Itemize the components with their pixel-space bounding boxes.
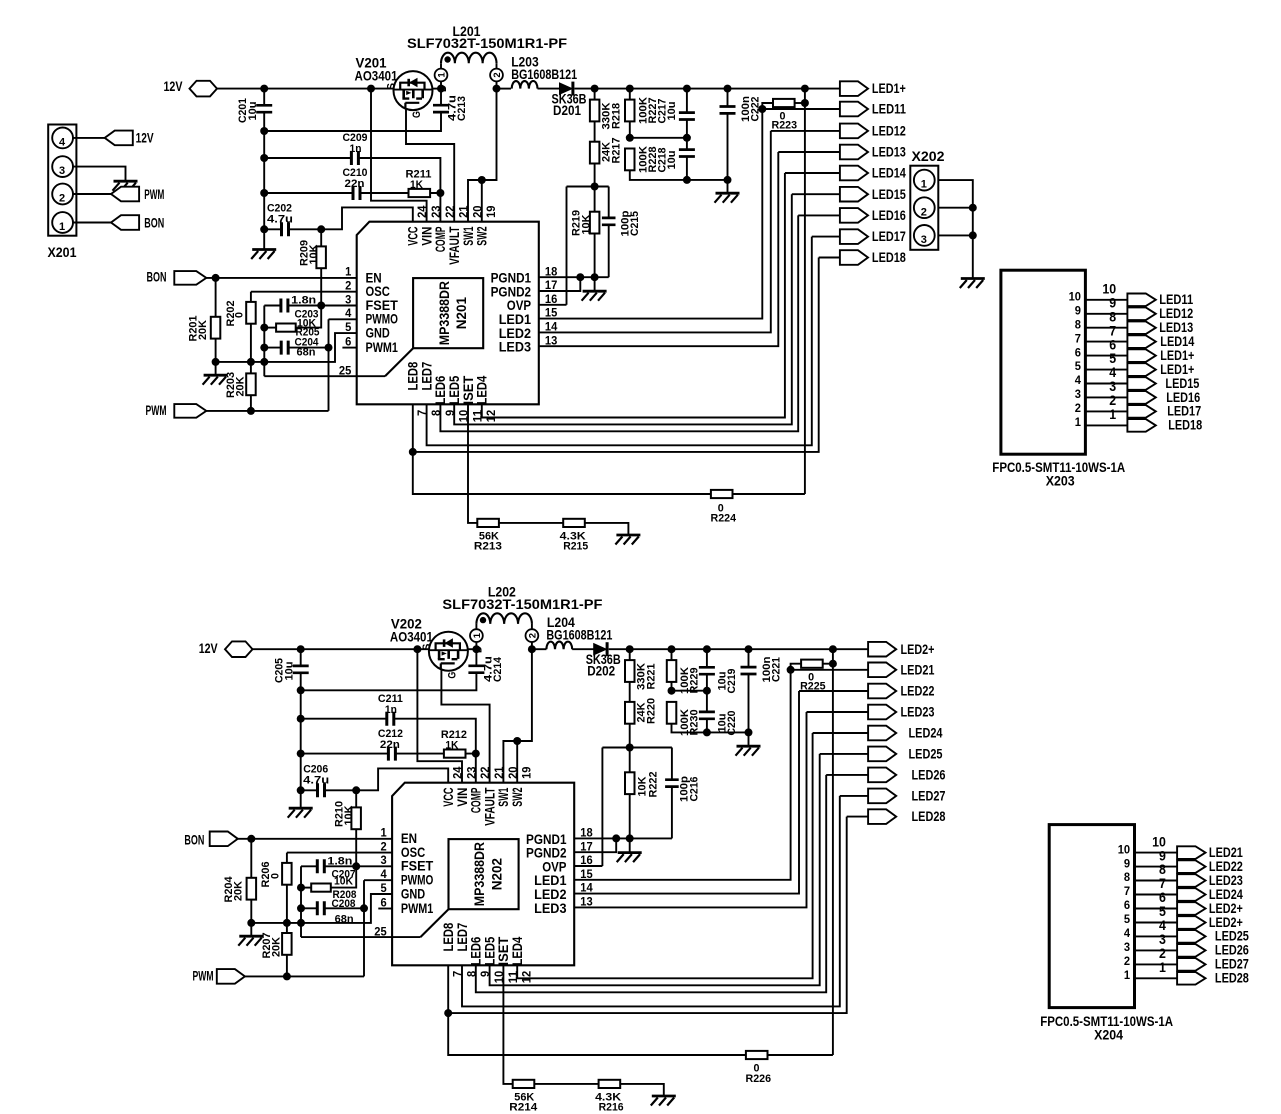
junction R225 LED21	[787, 666, 795, 674]
capacitor C211 1n	[387, 712, 394, 726]
svg-text:LED27: LED27	[1215, 957, 1249, 972]
wire pin25 inside diagonal N202	[420, 909, 448, 937]
flag LED2+	[868, 642, 896, 657]
svg-text:C216: C216	[688, 777, 700, 802]
junction node R208	[297, 884, 305, 892]
svg-text:LED11: LED11	[872, 102, 906, 117]
svg-text:3: 3	[381, 853, 387, 867]
svg-text:2: 2	[1124, 954, 1130, 968]
wire gnd stem R204	[250, 923, 252, 936]
wire pin25 row N202	[301, 936, 420, 938]
wire ISET bottom	[503, 965, 512, 1084]
capacitor C221 100n	[741, 667, 757, 674]
wire C220 bottom lead	[706, 719, 708, 733]
junction rail C209 branch	[260, 154, 268, 162]
wire R216 to gnd	[620, 1084, 664, 1095]
svg-text:1: 1	[1109, 407, 1116, 422]
svg-text:EN: EN	[401, 831, 417, 846]
svg-text:22n: 22n	[345, 178, 365, 190]
resistor R222 10K	[625, 772, 635, 794]
svg-text:10: 10	[1118, 842, 1131, 856]
svg-text:16: 16	[545, 292, 558, 306]
wire V201 gate to VFAULT	[406, 108, 454, 222]
junction VOUT C217	[683, 85, 691, 93]
inductor L201	[441, 53, 497, 64]
wire LED23 riser pin13	[574, 712, 806, 907]
junction V202 drain L202	[472, 645, 480, 653]
svg-text:R221: R221	[646, 664, 658, 690]
junction BON R204	[247, 835, 255, 843]
svg-text:13: 13	[545, 333, 558, 347]
chip N202 inner label box	[449, 839, 519, 909]
wire VOUT rail	[575, 88, 840, 90]
svg-text:LED2: LED2	[534, 887, 566, 902]
flag PWM input	[174, 404, 206, 418]
svg-text:LED1: LED1	[534, 873, 567, 888]
ground rail bottom half	[289, 807, 313, 810]
junction SW1 SW2	[478, 176, 486, 184]
flag LED2+ at X204	[1177, 916, 1205, 929]
svg-text:2: 2	[1109, 393, 1116, 408]
svg-text:LED25: LED25	[1215, 929, 1249, 944]
svg-text:PGND1: PGND1	[526, 832, 567, 847]
wire X204 pin 4	[1135, 935, 1178, 937]
svg-text:SW1: SW1	[496, 787, 511, 807]
wire LED28 riser pin7	[448, 817, 847, 1014]
svg-text:2: 2	[1159, 946, 1166, 961]
svg-text:5: 5	[381, 881, 387, 895]
flag BON at X201	[111, 215, 139, 230]
wire LED23 row	[807, 711, 869, 713]
resistor R228 100K	[625, 149, 635, 171]
wire C204 right lead	[288, 347, 328, 349]
junction rail C202 branch	[260, 225, 268, 233]
svg-text:BON: BON	[184, 832, 204, 847]
flag LED26	[868, 768, 896, 783]
svg-text:LED27: LED27	[912, 789, 946, 804]
junction VIN riser bottom	[413, 645, 421, 653]
wire X204 pin 10	[1135, 852, 1178, 854]
wire X201 pin3 to gnd	[73, 167, 126, 181]
resistor R223 0ohm	[773, 99, 795, 107]
flag LED23	[868, 705, 896, 720]
svg-text:GND: GND	[366, 326, 391, 341]
flag LED25	[868, 747, 896, 762]
wire PGND1 row N202	[574, 837, 672, 839]
wire C210 row	[264, 192, 353, 194]
svg-text:R224: R224	[711, 513, 737, 525]
junction SW1 SW2 bottom	[513, 737, 521, 745]
svg-text:20K: 20K	[197, 320, 209, 340]
svg-text:D202: D202	[587, 664, 615, 679]
svg-text:15: 15	[580, 867, 593, 881]
wire 12V rail to MOSFET	[217, 88, 394, 90]
junction R223 rail	[801, 99, 809, 107]
svg-text:2: 2	[345, 279, 351, 293]
svg-text:1.8n: 1.8n	[291, 294, 316, 306]
wire LED22 row	[799, 690, 868, 692]
junction VOUT LED2+ rail	[829, 645, 837, 653]
svg-text:OSC: OSC	[366, 284, 390, 299]
junction rail filter node	[260, 358, 268, 366]
capacitor C209 1n	[351, 151, 358, 165]
wire R205 left lead	[264, 327, 276, 329]
junction X202 pin3	[969, 231, 977, 239]
wire R203 bottom lead	[250, 395, 252, 411]
resistor R225 0ohm	[801, 660, 823, 668]
svg-text:1: 1	[472, 632, 483, 638]
wire OVP left branch bottom	[601, 748, 603, 867]
flag BON input bottom	[210, 832, 238, 847]
wire R201 bottom lead	[215, 339, 217, 362]
wire pin25 inside diagonal	[385, 348, 413, 376]
wire LED14 row	[785, 172, 840, 174]
capacitor C217 10u	[679, 113, 695, 120]
resistor R202 0ohm	[246, 302, 256, 324]
svg-text:1: 1	[381, 826, 387, 840]
svg-text:19: 19	[520, 766, 534, 779]
resistor R221 330K	[625, 660, 635, 682]
wire 12V to VIN pin23	[371, 89, 427, 222]
wire R202 bottom lead	[250, 324, 252, 362]
wire LED17 riser pin8	[427, 237, 812, 446]
flag BON input	[174, 271, 206, 285]
svg-text:G: G	[411, 111, 423, 118]
svg-text:6: 6	[1075, 345, 1081, 359]
svg-text:10u: 10u	[284, 662, 296, 681]
wire R227 top lead	[629, 89, 631, 100]
flag LED17	[840, 229, 868, 244]
flag LED16	[840, 208, 868, 223]
svg-text:LED7: LED7	[455, 923, 470, 952]
wire SW to L203	[497, 88, 512, 90]
resistor R217 24K	[590, 142, 600, 164]
inductor L202	[476, 613, 532, 624]
capacitor C219 10u	[699, 667, 715, 674]
svg-text:4: 4	[381, 867, 387, 881]
wire C220 top lead	[706, 691, 708, 712]
svg-text:R220: R220	[646, 698, 658, 724]
wire C222 bottom lead	[727, 114, 729, 193]
wire PWMO row N202	[364, 879, 392, 881]
svg-text:PWMO: PWMO	[401, 873, 433, 888]
wire PGND2 row N202	[574, 838, 616, 852]
svg-text:PWM: PWM	[144, 187, 164, 202]
pin circle 2 of X202	[914, 197, 935, 218]
svg-text:AO3401: AO3401	[355, 69, 398, 84]
junction FSET node	[317, 302, 325, 310]
svg-text:1: 1	[345, 265, 351, 279]
svg-text:LED3: LED3	[499, 340, 532, 355]
resistor R229 100K	[667, 660, 677, 682]
svg-text:21: 21	[457, 205, 471, 218]
wire R226 right	[768, 1054, 833, 1056]
wire C215 top lead	[608, 187, 610, 218]
junction C221 bottom	[745, 728, 753, 736]
wire R218 top lead	[594, 89, 596, 100]
wire left gnd rail N202	[251, 894, 392, 923]
wire LED14 riser pin12	[482, 173, 785, 418]
wire filter node vertical N202	[300, 866, 302, 937]
transistor V202 AO3401 PMOS	[429, 632, 468, 671]
junction COMP node	[436, 189, 444, 197]
power flag 12V bottom	[225, 641, 253, 657]
flag LED27 at X204	[1177, 958, 1205, 971]
svg-text:1: 1	[921, 179, 927, 191]
junction rail C214 branch	[297, 686, 305, 694]
svg-text:21: 21	[492, 766, 506, 779]
svg-text:14: 14	[545, 320, 558, 334]
svg-text:1: 1	[1075, 415, 1081, 429]
wire PWMO row	[329, 318, 357, 320]
wire X204 pin 6	[1135, 908, 1178, 910]
flag LED15	[840, 187, 868, 202]
svg-text:8: 8	[1075, 317, 1081, 331]
resistor R227 100K	[625, 100, 635, 122]
wire R204 top lead	[250, 839, 252, 878]
wire C210 to R211	[360, 192, 409, 194]
junction rail R202 R203	[247, 358, 255, 366]
wire C212 to R212	[395, 753, 444, 755]
svg-text:PWM1: PWM1	[401, 901, 434, 916]
svg-text:9: 9	[1159, 848, 1166, 863]
flag LED23 at X204	[1177, 874, 1205, 887]
svg-text:LED3: LED3	[534, 901, 567, 916]
ground left network bottom	[239, 935, 263, 938]
svg-text:1: 1	[1159, 960, 1166, 975]
wire SW2 branch bottom	[516, 741, 518, 783]
junction rail R201	[212, 358, 220, 366]
junction VIN riser	[367, 85, 375, 93]
svg-text:7: 7	[415, 410, 429, 416]
wire R210 bottom lead	[355, 829, 357, 866]
wire L202 left leg	[475, 624, 477, 629]
inductor L203	[512, 81, 538, 89]
wire EN row	[206, 277, 356, 279]
svg-text:PWM: PWM	[146, 403, 167, 418]
svg-text:GND: GND	[401, 886, 426, 901]
svg-text:10: 10	[492, 971, 506, 984]
pin circle 1 of L201	[435, 69, 448, 82]
junction PGND gnd	[591, 273, 599, 281]
wire pin25 row	[264, 375, 385, 377]
wire C214 bottom to gnd rail	[301, 673, 477, 691]
svg-text:BON: BON	[147, 269, 167, 284]
svg-text:6: 6	[1159, 890, 1166, 905]
wire OVP rect top	[567, 186, 609, 188]
wire OVP left branch	[566, 187, 568, 305]
wire R214 to R216	[534, 1083, 598, 1085]
junction node C208	[297, 904, 305, 912]
svg-text:LED21: LED21	[901, 662, 935, 677]
wire R207 bottom lead	[286, 955, 288, 977]
wire C221 bottom lead	[748, 674, 750, 745]
node OVP divider tap	[591, 183, 599, 191]
junction C201 top	[260, 85, 268, 93]
svg-text:2: 2	[921, 206, 927, 218]
wire C203 left	[264, 305, 281, 307]
wire SW node riser	[468, 89, 497, 222]
wire LED18 row	[819, 257, 840, 259]
junction VOUT R227	[626, 85, 634, 93]
svg-text:7: 7	[1159, 876, 1166, 891]
resistor R224 0ohm	[711, 490, 733, 498]
svg-text:SW2: SW2	[475, 226, 490, 245]
junction BON R201	[212, 274, 220, 282]
diode D202 SK36B	[594, 644, 607, 655]
wire PGND gnd stem N202	[629, 838, 631, 852]
svg-text:LED1+: LED1+	[1160, 348, 1194, 363]
power flag 12V	[190, 81, 218, 97]
resistor R210 10K	[351, 807, 361, 829]
wire LED12 row	[771, 130, 840, 132]
wire L201 left leg	[440, 63, 442, 68]
wire C208 left lead	[301, 907, 317, 909]
svg-text:13: 13	[580, 895, 593, 909]
svg-text:3: 3	[1159, 932, 1166, 947]
svg-text:LED28: LED28	[912, 809, 946, 824]
svg-text:LED17: LED17	[1167, 404, 1201, 419]
wire R226 left	[448, 1013, 746, 1055]
svg-text:EN: EN	[366, 270, 382, 285]
flag LED24	[868, 726, 896, 741]
flag PWM input bottom	[217, 969, 245, 984]
svg-text:ISET: ISET	[461, 375, 476, 405]
svg-text:68n: 68n	[335, 914, 354, 926]
wire R225 right lead	[823, 663, 833, 665]
junction VOUT R229	[668, 645, 676, 653]
svg-text:C219: C219	[726, 669, 738, 694]
wire LED21 row	[791, 669, 869, 671]
wire C216 bottom lead	[671, 787, 673, 839]
resistor R207 20K	[282, 933, 292, 955]
svg-text:COMP: COMP	[469, 788, 484, 814]
wire X204 pin 8	[1135, 880, 1178, 882]
svg-text:8: 8	[1109, 309, 1116, 324]
svg-text:LED17: LED17	[872, 229, 906, 244]
svg-text:LED1+: LED1+	[872, 81, 906, 96]
wire R220 to OVP node	[629, 724, 631, 773]
wire FSET row N202	[356, 865, 392, 867]
svg-text:LED25: LED25	[909, 747, 943, 762]
ground left network	[204, 374, 228, 377]
wire C222 top lead	[727, 89, 729, 107]
wire C207 right	[324, 865, 356, 867]
svg-text:VCC: VCC	[406, 226, 421, 245]
wire L202 right leg	[531, 624, 533, 629]
svg-text:8: 8	[429, 410, 443, 416]
capacitor C205	[293, 666, 309, 673]
svg-text:SW2: SW2	[510, 788, 525, 807]
svg-text:ISET: ISET	[496, 936, 511, 966]
wire SW2 branch	[481, 180, 483, 222]
wire X203 pin 6	[1085, 355, 1127, 357]
wire C218 leads	[686, 138, 688, 150]
wire LED15 riser pin10	[454, 194, 792, 424]
svg-text:LED14: LED14	[1160, 334, 1194, 349]
wire X202 pin1	[938, 180, 973, 278]
wire X204 pin 2	[1135, 963, 1178, 965]
svg-text:6: 6	[1124, 898, 1130, 912]
svg-text:8: 8	[1159, 862, 1166, 877]
flag LED21 at X204	[1177, 846, 1205, 859]
junction PWM R203	[247, 407, 255, 415]
wire LED2+ rail	[832, 649, 834, 1055]
junction VOUT C221	[745, 645, 753, 653]
svg-text:LED1: LED1	[499, 312, 532, 327]
svg-text:LED26: LED26	[912, 768, 946, 783]
junction rail C206 branch	[297, 786, 305, 794]
svg-text:2: 2	[381, 839, 387, 853]
wire LED15 row	[792, 193, 840, 195]
junction VOUT R218	[591, 85, 599, 93]
wire R206 top lead	[286, 853, 288, 863]
junction rail C211 branch	[297, 715, 305, 723]
wire R209 top lead	[320, 229, 322, 246]
junction C205 top	[297, 645, 305, 653]
connector X203 outline	[1001, 270, 1086, 454]
wire drain segment	[433, 88, 442, 90]
wire R228 bottom lead	[630, 170, 728, 180]
pin circle 1 of L202	[470, 629, 483, 642]
flag LED21	[868, 663, 896, 678]
wire R208 right lead	[331, 866, 356, 887]
resistor R205 10K	[276, 324, 296, 332]
connector X204 outline	[1049, 825, 1134, 1008]
wire R224 left	[413, 452, 711, 494]
wire C221 top lead	[748, 649, 750, 667]
resistor R204 20K	[247, 878, 257, 900]
flag PWM at X201	[111, 187, 139, 202]
connector X202 outline	[910, 166, 938, 250]
wire gnd rail bottom half	[300, 673, 302, 808]
transistor V201 AO3401 PMOS	[394, 71, 433, 110]
svg-text:MP3388DR: MP3388DR	[437, 281, 452, 345]
wire C217 bottom lead	[686, 120, 688, 138]
svg-text:2: 2	[527, 633, 538, 638]
wire X203 pin 4	[1085, 383, 1127, 385]
wire L201 right leg	[496, 63, 498, 68]
junction R223 LED11	[758, 105, 766, 113]
svg-text:20K: 20K	[270, 937, 282, 957]
flag LED17 at X203	[1127, 405, 1155, 418]
wire R225 left lead	[791, 664, 802, 670]
wire X203 pin 10	[1085, 299, 1127, 301]
capacitor C203 1.8n	[281, 299, 288, 313]
junction V201 drain L201	[437, 85, 445, 93]
resistor R213 56K	[477, 519, 499, 527]
svg-text:20: 20	[506, 766, 520, 779]
svg-text:R226: R226	[746, 1073, 772, 1085]
svg-text:R229: R229	[689, 668, 701, 694]
svg-text:LED5: LED5	[447, 375, 462, 404]
wire R205 right lead	[296, 306, 322, 328]
wire C202 left lead	[264, 228, 281, 230]
pin circle 3 of X201	[52, 156, 73, 177]
svg-text:LED24: LED24	[909, 726, 943, 741]
svg-text:LED12: LED12	[1159, 306, 1193, 321]
wire X203 pin 1	[1085, 424, 1127, 426]
svg-text:G: G	[446, 672, 458, 679]
resistor R216 4.3K	[599, 1080, 621, 1088]
wire R218 to R217	[594, 121, 596, 141]
wire gnd rail	[263, 112, 265, 248]
svg-text:LED24: LED24	[1209, 887, 1243, 902]
wire LED25 row	[820, 753, 868, 755]
wire SW node riser bottom	[503, 649, 532, 783]
ground PGND	[583, 290, 607, 293]
wire PWM riser	[328, 319, 330, 411]
